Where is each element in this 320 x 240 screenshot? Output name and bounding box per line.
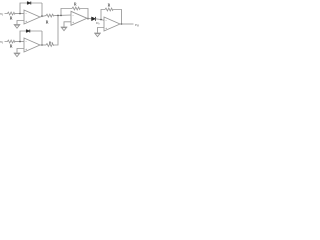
svg-text:R: R	[74, 2, 77, 6]
svg-text:vI: vI	[0, 39, 4, 45]
op-amp U1	[24, 10, 40, 24]
wire summing node	[54, 14, 71, 17]
svg-text:R: R	[46, 20, 49, 24]
svg-text:−: −	[25, 40, 27, 44]
ground GND4	[94, 33, 101, 37]
wire U2 output	[40, 44, 46, 46]
resistor R6 (summing, bottom)	[46, 44, 54, 47]
node junction J6 (feedback tap U4)	[100, 19, 102, 21]
diode D3 (series)	[92, 17, 96, 21]
svg-text:−: −	[25, 12, 27, 16]
diode D2 (bottom feedback)	[26, 30, 30, 33]
svg-text:R: R	[10, 16, 13, 20]
node junction J7 (U4 output)	[121, 23, 123, 25]
wire R6 up to summing node	[54, 16, 58, 46]
svg-text:R: R	[10, 44, 13, 48]
op-amp U2	[24, 38, 40, 52]
ground GND1	[14, 25, 21, 29]
wire U4 non-inverting input to ground	[98, 28, 105, 33]
node junction J2 (U1 output)	[41, 15, 43, 17]
wire feedback loop U4 riser	[101, 10, 105, 20]
wire U1 non-inverting input to ground	[17, 21, 24, 25]
svg-text:vI: vI	[0, 11, 4, 17]
wire feedback drop to U2 output	[41, 31, 43, 45]
wire feedback riser U1	[20, 3, 42, 14]
wire U2 non-inverting input to ground	[17, 49, 24, 53]
wire feedback drop to U1 output	[41, 3, 43, 16]
wire U3 non-inverting input to ground	[64, 22, 71, 27]
ground GND3	[61, 27, 68, 31]
svg-text:vO: vO	[135, 22, 140, 28]
node junction J8	[19, 41, 21, 43]
resistor R5 (bottom input)	[5, 40, 16, 43]
wire R5 to op-amp U2 inverting input	[15, 41, 24, 43]
svg-text:D2: D2	[96, 21, 99, 26]
resistor R2 (summing, top)	[46, 14, 54, 17]
node junction J5 (U3 output)	[87, 18, 89, 20]
op-amp U4	[104, 17, 120, 31]
svg-text:−: −	[72, 13, 74, 17]
node junction J1	[19, 13, 21, 15]
wire diode to U4 inverting input	[96, 19, 105, 21]
diode D1 (top feedback)	[27, 2, 31, 5]
svg-text:+: +	[105, 26, 107, 30]
node junction J3 (from lower stage)	[57, 15, 59, 17]
wire feedback loop U3 riser	[61, 9, 72, 16]
svg-text:+: +	[72, 21, 74, 25]
svg-text:+: +	[25, 19, 27, 23]
wire U3 output to diode	[87, 17, 92, 20]
node junction J4 (feedback tap U3)	[60, 15, 62, 17]
svg-text:R/2: R/2	[49, 40, 53, 44]
wire R1 to op-amp U1 inverting input	[15, 13, 24, 15]
node junction J9 (U2 output)	[41, 44, 43, 46]
svg-text:+: +	[25, 47, 27, 51]
op-amp U3	[71, 11, 87, 25]
resistor R4 (U4 feedback)	[105, 8, 113, 11]
ground GND2	[14, 53, 21, 57]
wire U1 output	[40, 16, 46, 17]
wire R3 to U3 output	[80, 9, 88, 19]
svg-text:−: −	[105, 19, 107, 23]
resistor R3 (U3 feedback)	[72, 7, 80, 10]
svg-text:R: R	[108, 3, 111, 7]
wire R4 to U4 output	[113, 10, 121, 25]
wire U4 output	[120, 23, 134, 25]
resistor R1 (top input)	[5, 12, 16, 15]
wire feedback riser U2	[20, 31, 42, 42]
